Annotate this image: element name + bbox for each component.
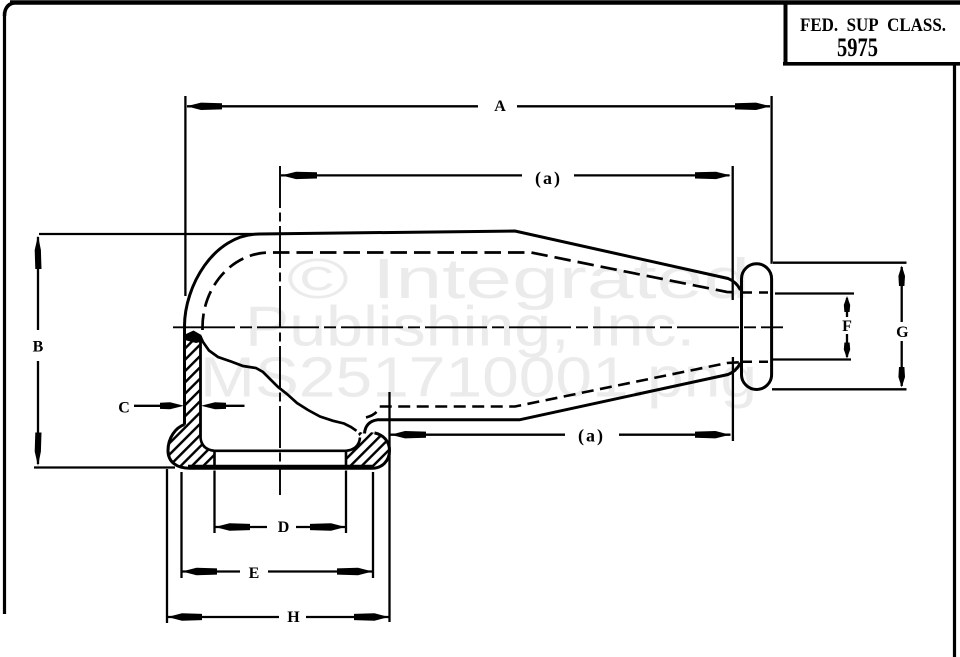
- page border right: [953, 65, 956, 657]
- dimension C right arrow: [201, 402, 226, 409]
- svg-text:A: A: [494, 98, 506, 115]
- dimension A left arrow: [187, 103, 223, 110]
- dimension A extension left: [184, 96, 186, 296]
- dimension F top extension: [775, 292, 854, 294]
- dimension B top extension: [39, 233, 253, 235]
- hatch fill: right flange section: [346, 431, 390, 469]
- flange bottom thick edge: [188, 465, 374, 469]
- fed sup class box left edge: [784, 2, 788, 64]
- page border left: [3, 12, 6, 614]
- dimension (a) bottom line: [390, 434, 731, 436]
- page border top: [10, 0, 960, 5]
- hidden line: bottom bore: [366, 362, 739, 417]
- dimension G bottom extension: [772, 388, 907, 390]
- dimension H line: [167, 616, 390, 618]
- dimension G top extension: [773, 262, 907, 264]
- fed sup class box bottom edge: [783, 62, 960, 66]
- page border top-left rounded corner: [5, 3, 19, 17]
- svg-text:5975: 5975: [837, 33, 878, 62]
- dimension H right arrow: [354, 613, 389, 620]
- svg-text:G: G: [896, 324, 909, 341]
- dimension B bottom extension: [34, 466, 175, 468]
- dimension A extension right (above bead): [770, 96, 772, 264]
- svg-text:D: D: [278, 519, 290, 536]
- svg-text:F: F: [842, 318, 852, 335]
- svg-text:H: H: [287, 609, 300, 626]
- dimension E extensions: [182, 472, 374, 578]
- dimension D line: [215, 526, 347, 528]
- outer profile: left elbow arc: [185, 234, 260, 326]
- dimension (a) top right arrow: [695, 172, 731, 179]
- svg-text:(a): (a): [535, 168, 562, 189]
- dimension C left arrow: [160, 402, 184, 409]
- dimension G bottom arrow: [898, 367, 905, 388]
- svg-text:(a): (a): [578, 426, 605, 447]
- dimension F bottom arrow: [844, 343, 850, 359]
- wall inner edge: [199, 336, 202, 438]
- dimension (a) bottom left arrow: [391, 431, 427, 438]
- break line (irregular section boundary): [200, 335, 357, 431]
- dimension D left arrow: [215, 523, 250, 530]
- dimension C left line: [134, 405, 166, 407]
- outer profile: wall outer edge: [183, 326, 186, 425]
- dimension (a) top left arrow: [282, 172, 318, 179]
- dimension E right arrow: [337, 568, 373, 575]
- dimension D right arrow: [310, 523, 346, 530]
- hatch fill: left wall + left flange section: [168, 335, 215, 468]
- dimension E left arrow: [182, 568, 217, 575]
- dimension H extensions: [167, 392, 390, 623]
- outer profile: top line and taper to bead: [259, 231, 741, 290]
- dimension F top arrow: [844, 296, 850, 312]
- outer profile: flange outline: [168, 425, 390, 469]
- dimension G top arrow: [898, 266, 905, 287]
- dimension H left arrow: [168, 613, 203, 620]
- dimension (a) top line: [281, 174, 730, 176]
- hidden line: bore through bead bottom: [743, 361, 770, 364]
- dimension B line: [37, 237, 39, 464]
- dimension B top arrow: [35, 236, 42, 270]
- dimension F bottom extension: [773, 358, 851, 360]
- dimension A right arrow: [735, 103, 771, 110]
- svg-text:E: E: [249, 565, 260, 582]
- slot (flange opening): [215, 451, 347, 467]
- vertical centerline: [279, 166, 281, 495]
- dimension C right line: [224, 405, 245, 407]
- dimension (a) bottom right arrow: [695, 431, 730, 438]
- dimension F line: [846, 298, 848, 357]
- dimension (a) bottom right extension: [732, 357, 734, 441]
- hidden line: inner elbow arc and top bore: [203, 253, 740, 331]
- horizontal centerline: [173, 326, 783, 328]
- svg-text:C: C: [118, 400, 130, 417]
- dimension A line: [187, 105, 770, 107]
- wall inner fillet to slot: [201, 438, 215, 451]
- dimension G line: [901, 267, 903, 386]
- svg-text:MS251710001.png: MS251710001.png: [200, 346, 757, 410]
- dimension E line: [182, 570, 374, 572]
- outer profile: bottom taper and fillet into flange: [365, 363, 741, 434]
- slot right fillet: [346, 438, 360, 451]
- dimension (a) top right extension: [732, 166, 734, 300]
- dimension D extensions: [215, 471, 347, 534]
- dimension B bottom arrow: [35, 433, 42, 467]
- svg-text:B: B: [33, 339, 44, 356]
- hidden line: bore through bead top: [743, 291, 770, 294]
- bead (right end): [742, 264, 772, 390]
- wall section tip: [185, 331, 203, 344]
